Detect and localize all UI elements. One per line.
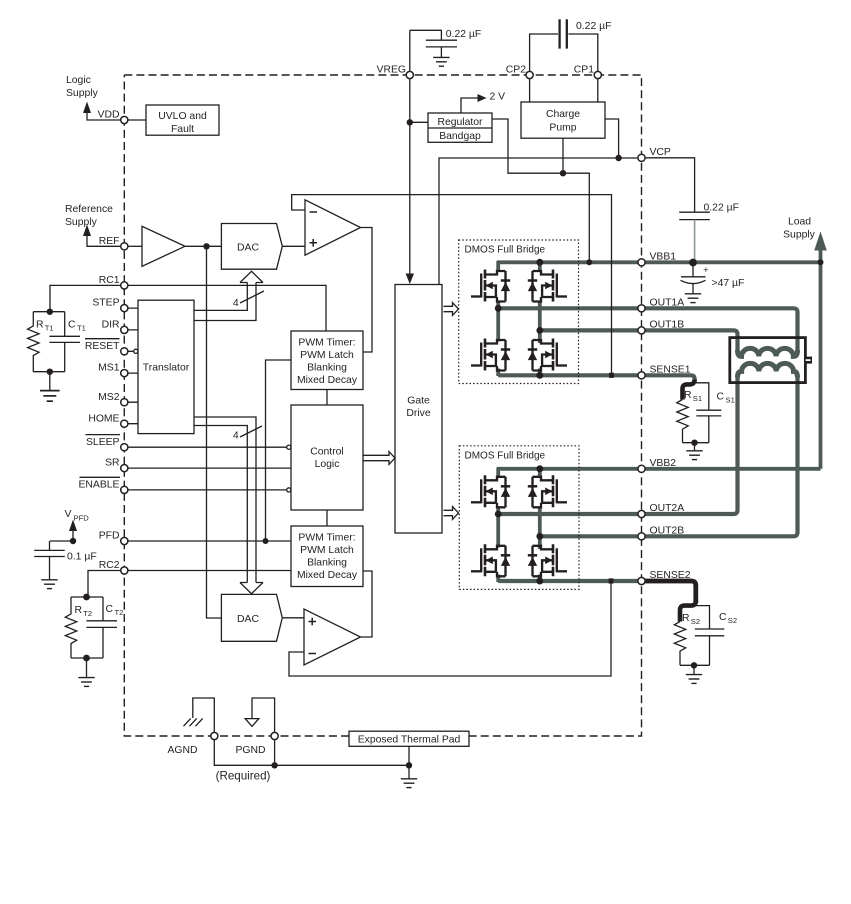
2V arrow	[478, 94, 487, 102]
svg-text:Supply: Supply	[66, 88, 99, 99]
svg-text:Control: Control	[310, 447, 344, 458]
svg-text:VBB1: VBB1	[650, 252, 677, 263]
terminal PGND	[271, 732, 278, 739]
transistor Q4	[528, 339, 567, 371]
svg-text:Blanking: Blanking	[307, 363, 347, 374]
svg-text:OUT1A: OUT1A	[650, 298, 685, 309]
wires translator inputs	[128, 308, 139, 424]
wire VCP to gate drive	[439, 158, 638, 285]
svg-text:MS1: MS1	[98, 363, 120, 374]
resistor RT1	[28, 312, 39, 372]
svg-text:C: C	[68, 320, 76, 331]
svg-text:Regulator: Regulator	[437, 117, 483, 128]
capacitor 0.1uF	[34, 549, 65, 551]
svg-text:(Required): (Required)	[216, 770, 271, 783]
wire op-amp1 out to PWM timer 1	[361, 228, 373, 353]
wire DAC2 out to op-amp2	[282, 617, 304, 619]
ground 47uF	[685, 294, 701, 303]
wire op-amp1 feedback from SENSE1	[292, 195, 612, 376]
terminal OUT1A	[638, 305, 645, 312]
wire PWM1 to control logic	[326, 390, 328, 406]
wire buffer out to DAC1	[185, 245, 221, 247]
wire VDD to UVLO	[128, 119, 147, 121]
capacitor CS1	[695, 383, 709, 443]
ground RS2	[686, 675, 702, 684]
wire CP1 into charge pump	[597, 79, 599, 102]
terminal AGND	[211, 732, 218, 739]
wire load supply stem	[819, 250, 823, 469]
svg-text:HOME: HOME	[88, 413, 119, 424]
svg-text:STEP: STEP	[92, 298, 119, 309]
ground RS1	[686, 451, 702, 460]
wire CP2 to flying cap	[530, 34, 558, 71]
sense network 2 : black elbow	[680, 601, 696, 622]
terminal MS2	[121, 399, 128, 406]
hollow arrow gate drive to bridge 2	[444, 507, 459, 520]
svg-text:R: R	[75, 605, 83, 616]
wire VCP to 0.22uF cap	[645, 158, 695, 212]
terminal VREG	[406, 71, 413, 78]
svg-text:Load: Load	[788, 217, 811, 228]
svg-text:S1: S1	[693, 394, 702, 403]
wire SENSE2	[498, 579, 691, 583]
UVLO and Fault box U1	[146, 105, 219, 135]
node RT1 top	[47, 309, 53, 315]
svg-text:R: R	[682, 613, 690, 624]
PGND arrow symbol	[245, 719, 259, 727]
transistor Q1	[471, 270, 510, 302]
svg-text:VBB2: VBB2	[650, 458, 677, 469]
node OUT2B	[536, 533, 543, 540]
svg-text:OUT2B: OUT2B	[650, 526, 685, 537]
bus slash 1	[240, 291, 264, 303]
svg-text:Gate: Gate	[407, 396, 430, 407]
terminal RC1	[121, 282, 128, 289]
svg-text:OUT2A: OUT2A	[650, 503, 685, 514]
node RS2 ground	[691, 662, 697, 668]
wire RC2 right to PWM timer 2	[128, 570, 292, 572]
transistor Q6	[528, 475, 567, 507]
node SENSE2 rail	[536, 578, 543, 585]
svg-text:PWM Timer:: PWM Timer:	[298, 338, 355, 349]
wire reference supply to REF	[87, 236, 121, 246]
DAC2 bus arrow	[240, 583, 263, 594]
node SENSE1 rail	[536, 372, 543, 379]
ground exposed pad	[401, 779, 417, 788]
svg-text:VDD: VDD	[98, 110, 120, 121]
DMOS full bridge 1 dotted box	[459, 240, 579, 384]
svg-text:MS2: MS2	[98, 392, 120, 403]
bus slash 2	[240, 426, 262, 437]
wire flying cap to CP1	[568, 34, 597, 71]
wire ENABLE to control logic	[128, 489, 287, 491]
svg-text:DAC: DAC	[237, 242, 259, 253]
svg-text:T2: T2	[115, 608, 124, 617]
svg-text:RC2: RC2	[99, 560, 120, 571]
svg-text:UVLO and: UVLO and	[158, 111, 207, 122]
node OUT2A	[495, 511, 502, 518]
resistor RS1	[677, 400, 688, 443]
svg-text:Supply: Supply	[783, 230, 816, 241]
node PGND	[271, 762, 277, 768]
terminal CP1	[594, 71, 601, 78]
capacitor 0.22uF charge pump	[558, 19, 560, 48]
node RT1 bottom	[47, 369, 53, 375]
terminal VBB2	[638, 465, 645, 472]
DMOS full bridge 2 dotted box	[459, 446, 579, 590]
load supply arrow	[814, 232, 827, 251]
VPFD arrow	[69, 520, 77, 532]
svg-text:+: +	[703, 265, 708, 275]
svg-text:PFD: PFD	[74, 514, 90, 523]
hollow arrow gate drive to bridge 1	[444, 303, 459, 316]
svg-text:S2: S2	[728, 616, 737, 625]
wire CP2 into charge pump	[529, 79, 531, 102]
RS2 CS2 bottom rail	[680, 665, 710, 674]
resistor RS2	[674, 622, 685, 666]
Control Logic box	[291, 405, 363, 510]
svg-text:VCP: VCP	[650, 147, 671, 158]
terminal HOME	[121, 420, 128, 427]
motor winding 1 coil emphasis	[738, 348, 798, 356]
node RT2 bottom	[83, 655, 90, 662]
terminal PFD	[121, 537, 128, 544]
terminal MS1	[121, 370, 128, 377]
wires translator bus to DAC1	[194, 283, 256, 321]
wire REF node down to DAC2	[207, 246, 222, 618]
svg-text:Mixed Decay: Mixed Decay	[297, 570, 358, 581]
wire RC1 right to PWM timer 1	[128, 285, 327, 331]
transistor Q3	[471, 339, 510, 371]
wire RC2 left to RT2	[88, 571, 121, 598]
svg-text:PWM Latch: PWM Latch	[300, 350, 354, 361]
wire charge pump to VCP	[605, 119, 619, 158]
overline SLEEP	[86, 434, 121, 436]
terminal VCP	[638, 154, 645, 161]
RT1 CT1 node rails	[33, 312, 64, 391]
Gate Drive box	[395, 285, 442, 534]
node charge pump bottom	[560, 170, 566, 176]
PWM Timer 1 box	[291, 331, 363, 390]
terminal RESET	[121, 348, 128, 355]
svg-text:2 V: 2 V	[490, 92, 506, 103]
node VCP	[615, 155, 621, 161]
svg-text:PGND: PGND	[235, 745, 265, 756]
Translator box	[138, 300, 194, 433]
svg-text:Fault: Fault	[171, 124, 194, 135]
svg-text:Drive: Drive	[406, 408, 430, 419]
DAC U2	[221, 224, 282, 270]
wire regulator out to VBB1 rail	[492, 119, 589, 262]
svg-text:>47 µF: >47 µF	[712, 278, 745, 289]
wire REF to buffer	[128, 245, 143, 247]
terminal ENABLE	[121, 486, 128, 493]
op-amp comparator 1	[305, 200, 361, 255]
terminal SENSE1	[638, 372, 645, 379]
RT2 CT2 node rails	[71, 597, 103, 678]
svg-text:ENABLE: ENABLE	[78, 480, 119, 491]
ground RT2	[78, 678, 94, 687]
svg-text:CP2: CP2	[506, 65, 526, 76]
node RT2 top	[83, 594, 90, 601]
svg-text:Logic: Logic	[315, 459, 340, 470]
wire logic supply to VDD	[87, 113, 121, 120]
svg-text:Mixed Decay: Mixed Decay	[297, 375, 358, 386]
wire AGND symbol	[193, 698, 215, 732]
wire VPFD arrow stem	[72, 531, 74, 541]
node OUT1B	[536, 327, 543, 334]
wire OUT2A + motor winding 2 + wire OUT2B	[498, 363, 797, 536]
svg-text:R: R	[684, 390, 692, 401]
svg-text:SENSE1: SENSE1	[650, 365, 691, 376]
svg-text:REF: REF	[99, 236, 120, 247]
svg-text:DIR: DIR	[102, 320, 120, 331]
op-amp comparator 2	[304, 609, 361, 665]
svg-text:OUT1B: OUT1B	[650, 320, 685, 331]
svg-text:Charge: Charge	[546, 109, 580, 120]
wire regulator 2V output	[461, 98, 478, 113]
capacitor CT2	[102, 597, 104, 658]
terminal OUT1B	[638, 327, 645, 334]
motor winding 2 coil emphasis	[738, 363, 798, 377]
wire SLEEP to control logic	[128, 446, 287, 448]
transistor Q2	[528, 270, 567, 302]
svg-text:C: C	[106, 604, 114, 615]
wire SENSE1	[498, 375, 694, 382]
wire PFD left to 0.1uF	[50, 541, 74, 550]
Regulator Bandgap box	[428, 113, 492, 142]
wire VBB1 rail	[497, 260, 821, 264]
svg-text:SENSE2: SENSE2	[650, 570, 691, 581]
node PFD split	[263, 538, 269, 544]
terminal SENSE2	[638, 577, 645, 584]
ground 0.1uF	[41, 580, 57, 589]
wire DAC1 out to op-amp1	[282, 245, 305, 247]
svg-text:PWM Latch: PWM Latch	[300, 545, 354, 556]
sense network 1 : black elbow	[683, 380, 695, 400]
node VBB1 cap	[689, 259, 697, 267]
wire VBB2 rail	[497, 467, 821, 471]
svg-text:Logic: Logic	[66, 75, 91, 86]
svg-text:DAC: DAC	[237, 614, 259, 625]
capacitor CT1	[64, 312, 66, 372]
resistor RT2	[65, 597, 76, 658]
wire OUT1A + motor winding 1 + wire OUT1B	[498, 308, 797, 356]
svg-text:0.22 µF: 0.22 µF	[704, 202, 739, 213]
transistor Q5	[471, 475, 510, 507]
svg-text:V: V	[65, 509, 72, 520]
terminal REF	[121, 243, 128, 250]
wire RC1 left to RT1	[50, 285, 121, 311]
svg-text:Blanking: Blanking	[307, 558, 347, 569]
terminal VBB1	[638, 259, 645, 266]
capacitor 0.22uF at VCP	[679, 211, 710, 213]
svg-text:Exposed Thermal Pad: Exposed Thermal Pad	[358, 735, 461, 746]
node bridge1 top	[536, 259, 543, 266]
svg-text:Reference: Reference	[65, 204, 113, 215]
node VREG regulator	[407, 119, 413, 125]
chip boundary dashed border	[124, 75, 641, 736]
logic supply arrow	[83, 102, 91, 114]
wire op-amp2 out to PWM timer 2	[361, 571, 373, 637]
motor winding box	[730, 338, 806, 383]
node SENSE1 feedback	[609, 373, 614, 378]
node bridge2 top	[536, 465, 543, 472]
node VBB1 load	[818, 259, 824, 265]
wire SR to control logic	[128, 467, 292, 469]
overline RESET	[85, 338, 120, 340]
terminal CP2	[526, 71, 533, 78]
svg-text:0.22 µF: 0.22 µF	[576, 21, 611, 32]
svg-text:C: C	[719, 612, 727, 623]
DAC U3	[221, 594, 282, 641]
RS1 CS1 bottom rail	[683, 443, 709, 451]
svg-text:CP1: CP1	[574, 65, 594, 76]
capacitor 0.22uF at VREG	[426, 39, 457, 41]
svg-text:T1: T1	[77, 324, 86, 333]
motor shaft stub	[805, 357, 812, 364]
svg-text:Bandgap: Bandgap	[439, 131, 481, 142]
wire AGND PGND to ground	[214, 740, 409, 779]
node exposed pad ground	[406, 762, 412, 768]
node RS1 ground	[691, 440, 697, 446]
Charge Pump box	[521, 102, 605, 138]
terminal SLEEP	[121, 444, 128, 451]
wire op-amp2 feedback from SENSE2	[289, 581, 611, 676]
svg-text:Pump: Pump	[549, 123, 576, 134]
terminal RC2	[121, 567, 128, 574]
hollow arrow control logic to gate drive	[363, 452, 395, 465]
svg-text:RC1: RC1	[99, 275, 120, 286]
svg-text:4: 4	[233, 431, 239, 442]
terminal STEP	[121, 305, 128, 312]
node SENSE2 feedback	[609, 578, 614, 583]
svg-text:AGND: AGND	[167, 745, 197, 756]
svg-text:PFD: PFD	[99, 531, 120, 542]
svg-text:0.22 µF: 0.22 µF	[446, 29, 481, 40]
bridge1 leg wires	[496, 261, 500, 376]
svg-text:RESET: RESET	[85, 341, 120, 352]
svg-text:SLEEP: SLEEP	[86, 437, 120, 448]
bridge2 leg wires	[496, 468, 500, 583]
terminal DIR	[121, 326, 128, 333]
svg-text:SR: SR	[105, 458, 120, 469]
svg-text:T1: T1	[45, 324, 54, 333]
wire PGND symbol	[252, 698, 275, 732]
wire 0.22uF cap to VBB1	[694, 220, 696, 260]
capacitor CS2	[696, 606, 710, 666]
terminal SR	[121, 465, 128, 472]
node VPFD	[70, 538, 76, 544]
capacitor 47uF polarized	[692, 266, 694, 277]
ENABLE inverter bubble	[287, 488, 291, 492]
svg-text:S2: S2	[691, 617, 700, 626]
svg-text:S1: S1	[726, 396, 735, 405]
Exposed Thermal Pad box	[349, 731, 469, 746]
buffer amp REF	[142, 226, 185, 266]
node OUT1A	[495, 305, 502, 312]
DAC1 bus arrow	[240, 271, 263, 282]
ground 0.22uF VREG	[433, 57, 449, 66]
PWM Timer 2 box	[291, 526, 363, 587]
ground RT1	[40, 391, 60, 402]
chassis ground AGND	[184, 718, 203, 726]
node REF buffer out	[203, 243, 209, 249]
wire VREG node to regulator	[410, 121, 428, 123]
svg-text:C: C	[717, 392, 725, 403]
transistor Q8	[528, 544, 567, 576]
svg-text:DMOS Full Bridge: DMOS Full Bridge	[465, 450, 546, 461]
svg-text:0.1 µF: 0.1 µF	[67, 552, 97, 563]
terminal VDD	[121, 116, 128, 123]
svg-text:4: 4	[233, 298, 239, 309]
svg-text:Translator: Translator	[143, 363, 190, 374]
wires translator bus to DAC2	[194, 417, 256, 583]
RESET inverter bubble	[134, 349, 138, 353]
overline ENABLE	[80, 476, 121, 478]
svg-text:R: R	[36, 320, 44, 331]
transistor Q7	[471, 544, 510, 576]
node regulator VBB1	[586, 259, 592, 265]
svg-text:T2: T2	[83, 609, 92, 618]
SLEEP inverter bubble	[287, 445, 291, 449]
svg-text:DMOS Full Bridge: DMOS Full Bridge	[465, 244, 546, 255]
wire VREG to 0.22uF cap	[410, 30, 442, 40]
reference supply arrow	[83, 225, 91, 237]
svg-text:PWM Timer:: PWM Timer:	[298, 533, 355, 544]
terminal OUT2A	[638, 510, 645, 517]
wire charge pump bottom	[562, 138, 564, 173]
wire PFD to PWM timers	[128, 360, 292, 541]
terminal OUT2B	[638, 533, 645, 540]
wire control logic to PWM2	[326, 510, 328, 526]
svg-text:VREG: VREG	[377, 65, 406, 76]
wire VREG vertical with arrow into gate drive	[409, 30, 411, 273]
svg-text:Supply: Supply	[65, 217, 98, 228]
